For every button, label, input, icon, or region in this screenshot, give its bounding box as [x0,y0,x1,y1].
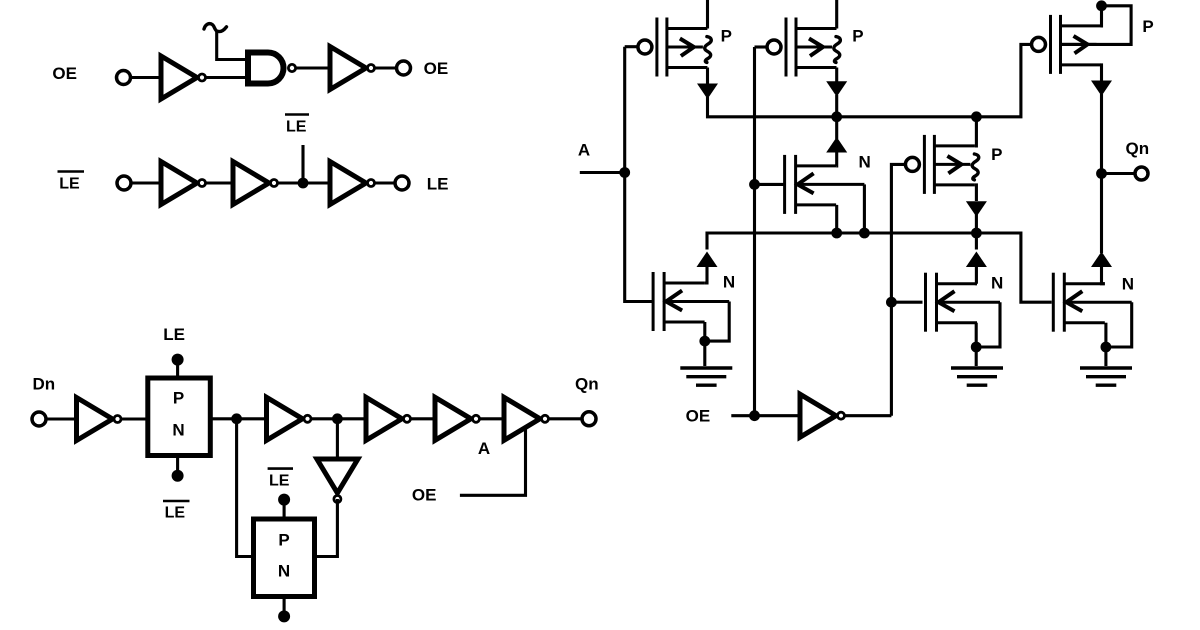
wire U8 to TG2 right [314,499,337,557]
inverter U7 [267,397,312,440]
wire U10 to U11 [480,417,505,420]
wire N4 bulk down to rail2 [863,184,866,233]
arrow N4 drain (up) [826,137,847,153]
node N2 gate junction [886,297,897,308]
wire P2 gate stub [755,45,767,48]
wire TG1 bottom to LE-bar dot [176,456,179,476]
wire P1 drain up to supply (cut) [706,0,709,29]
wire TG2 bottom to LE dot [283,597,286,617]
svg-text:OE: OE [412,486,437,505]
transmission gate TG1 [148,378,211,456]
svg-text:LE: LE [269,472,290,489]
label LE-bar above TG2 [268,469,293,490]
svg-text:P: P [173,388,184,407]
wire N2 drain stub [975,267,979,284]
wire N2 bulk to source dot [976,302,1000,347]
wire N4 drain arrow to rail1 [835,117,838,139]
wire A vertical top to P1 gate [625,45,637,48]
wire P4 bulk stub [1061,43,1097,46]
wire LE-bar input to U3 [131,181,161,184]
svg-text:OE: OE [686,407,711,426]
inverter U11 (tri-state output) [504,397,549,440]
ground below N3 [1080,368,1132,385]
squiggle tilde (connection elsewhere) on G1 input A [204,24,227,32]
inverter U6 [77,398,122,441]
transistor P3 (PMOS) [905,135,978,194]
wire G1 input A from squiggle [217,31,248,60]
arrow P2 source (down) [826,81,847,97]
wire N3 bulk to source dot [1106,302,1132,347]
label LE-bar input [58,172,85,193]
wire U1 to G1 input B [206,76,249,79]
svg-text:P: P [278,530,289,549]
transmission gate TG2 [254,519,315,597]
svg-text:N: N [1122,275,1134,294]
inverter U3 [161,162,206,205]
svg-text:LE: LE [163,325,185,344]
node LE-bar junction [298,178,309,189]
wire P2 source down [835,68,838,84]
svg-text:OE: OE [424,59,449,78]
label LE-bar below TG1 [163,501,190,522]
terminal LE-bar input [117,176,131,190]
svg-text:LE: LE [165,505,186,522]
node rail1 junction at P2 [831,111,842,122]
node OE junction [749,410,760,421]
transistor P4 (PMOS) [1032,15,1102,74]
wire N1 bulk to source dot [705,302,729,342]
transistor N1 (NMOS) [653,272,729,331]
transistor P2 (PMOS) [767,18,840,77]
node rail2 junction at P3/N2 [971,228,982,239]
terminal Qn output [582,412,596,426]
svg-text:OE: OE [52,64,77,83]
wire LE-bar dot to TG2 top [283,500,286,519]
wire P4 drain loop up [1101,6,1102,26]
svg-text:N: N [991,274,1003,293]
svg-text:Qn: Qn [1126,139,1150,158]
terminal OE output [397,61,411,75]
inverter U4 [233,162,278,205]
wire P3 source down [975,185,977,201]
svg-text:LE: LE [286,119,307,136]
wire N1 source down [703,322,706,366]
wire OE input to U1 [131,76,162,79]
node N1 source junction [699,336,710,347]
wire U12 to OE-bar vertical [845,414,892,417]
wire U2 to OE output terminal [375,66,397,69]
wire P2 source to rail1 [835,95,838,117]
svg-text:A: A [578,141,590,160]
wire P3 source arrow to rail2 [975,215,978,234]
ground below N2 [951,368,1003,385]
rail node B horizontal (rail1) [708,44,1032,116]
arrow P1 source (down) [697,84,718,100]
wire Qn vertical [1100,94,1103,253]
node Qn junction [1096,168,1107,179]
node LE control dot TG2 [278,610,290,622]
wire OE input to U12 [731,414,800,417]
inverter U2 [330,47,375,90]
svg-text:A: A [478,439,490,458]
node LE-bar control dot TG2 [278,494,290,506]
node P4 drain-bulk junction [1096,0,1107,11]
node N2 source junction [971,342,982,353]
svg-text:P: P [852,27,863,46]
arrow N1 drain (up) [697,252,718,268]
wire U7 to node2 [311,417,366,420]
inverter U5 [330,162,375,205]
svg-text:N: N [172,420,184,439]
wire N1 drain up [705,267,707,283]
nand gate G1 [248,53,296,84]
terminal Qn (right) [1135,167,1148,180]
transistor N3 (NMOS) [1053,273,1131,332]
node N3 source junction [1101,342,1112,353]
wire P1 source down / rail1 start [706,68,709,84]
inverter U9 [366,397,411,440]
transistor N2 (NMOS) [926,273,1001,332]
svg-text:P: P [991,145,1002,164]
wire N2 source down [975,323,978,366]
node junction n1 [231,413,242,424]
wire U3 to U4 [206,181,234,184]
wire P4 source down [1101,65,1102,82]
inverter U8 (feedback, pointing down) [317,459,358,503]
node LE control dot TG1 [172,354,184,366]
rail node C horizontal (rail2) [707,233,1052,302]
node rail1 junction at P3 [971,111,982,122]
wire node1 feedback down to TG2 left [237,419,254,557]
svg-text:Qn: Qn [575,374,599,393]
wire U5 to LE output terminal [375,181,396,184]
arrow N3 drain (up) [1091,252,1112,268]
wire U6 to TG1 [121,417,147,420]
wire G1 to U2 [296,66,330,69]
transistor P1 (PMOS) [638,18,711,77]
transistor N4 (NMOS pass) [785,155,865,214]
wire OE vertical (P2 gate to OE line) [753,47,756,416]
wire N4 source down to rail2 [835,205,838,233]
wire N3 source down [1104,323,1107,366]
node N4 gate junction on OE vertical [749,179,760,190]
wire P2 drain up to supply (cut) [835,0,838,29]
svg-text:N: N [723,273,735,292]
svg-text:LE: LE [59,176,80,193]
wire U4 to node LE-bar [278,181,331,184]
wire A vertical (P1/N1 gates) [625,47,653,302]
arrow P3 source (down) [966,201,987,217]
wire N4 drain up [835,153,839,166]
label LE-bar node [285,115,309,136]
node rail2 junction at N4 source [831,228,842,239]
svg-text:N: N [278,562,290,581]
node A junction [619,167,630,178]
wire N4 gate [755,183,785,186]
wire node LE-bar stub up [301,145,304,183]
svg-text:LE: LE [427,175,449,194]
wire N2 gate [891,301,922,304]
terminal LE output [395,176,409,190]
wire OE-bar vertical (P3/N2 gates) [891,164,904,415]
wire Dn input to U6 [46,417,77,420]
svg-text:Dn: Dn [33,374,56,393]
wire N2 drain up to rail2 [975,233,978,250]
wire P3 drain up to rail1 [975,117,977,146]
inverter U1 [161,56,206,99]
node rail2 junction at N4 bulk [859,228,870,239]
wire A input [580,171,625,174]
inverter U10 [435,397,480,440]
wire TG1 to node1 [210,417,265,420]
wire OE control to U11 [460,428,526,495]
wire U9 to U10 [411,417,436,420]
ground below N1 [680,368,732,385]
wire U11 to Qn terminal [549,417,583,420]
wire node2 down to U8 [336,419,339,459]
terminal OE input [117,71,131,85]
node junction n2 [332,413,343,424]
svg-text:P: P [1142,17,1153,36]
arrow P4 source (down) [1091,81,1112,97]
arrow N2 drain (up) [966,252,987,268]
wire LE dot to TG1 top [176,360,179,378]
terminal Dn input [32,412,46,426]
wire N3 drain stub [1102,267,1105,284]
svg-text:N: N [859,153,871,172]
wire P4 bulk loop [1097,6,1132,45]
node LE-bar control dot TG1 [172,470,184,482]
wire Qn to terminal [1102,172,1136,175]
svg-text:P: P [721,27,732,46]
inverter U12 (OE buffer) [800,394,845,437]
